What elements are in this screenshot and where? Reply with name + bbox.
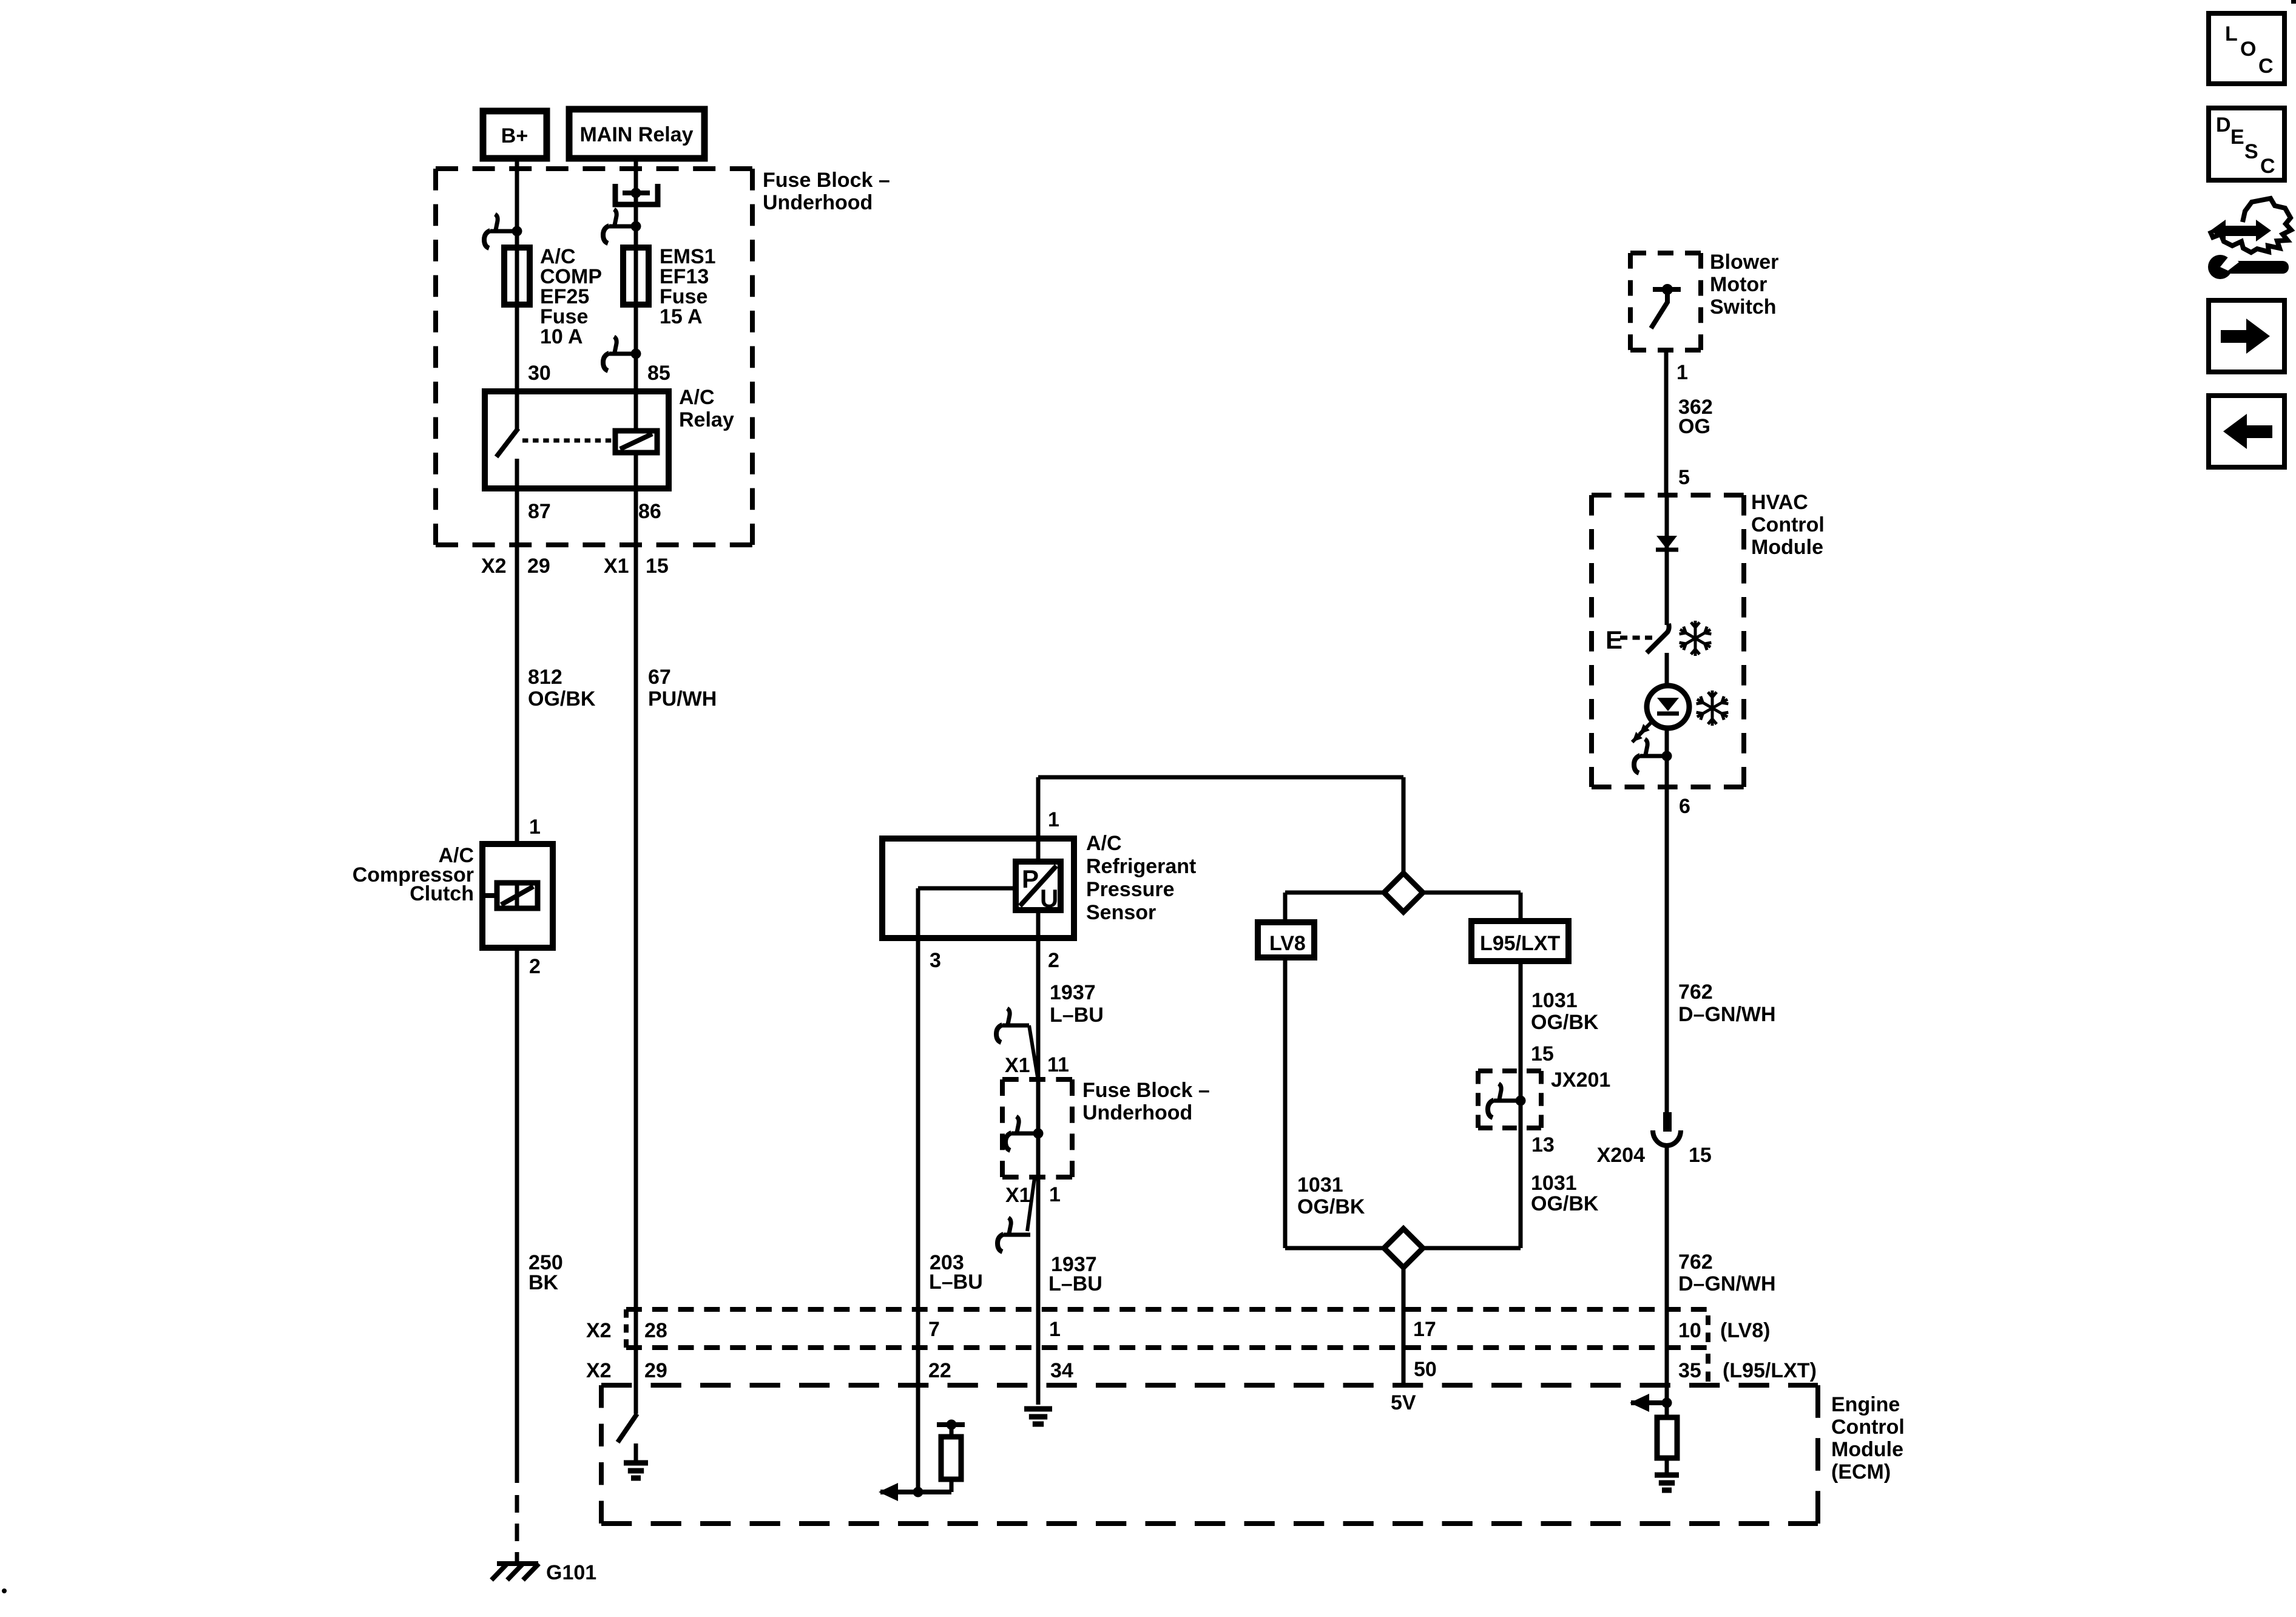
svg-text:O: O <box>2240 38 2256 61</box>
svg-text:OG/BK: OG/BK <box>1531 1192 1599 1215</box>
svg-text:30: 30 <box>528 362 551 385</box>
svg-text:1031: 1031 <box>1297 1173 1343 1197</box>
svg-text:OG/BK: OG/BK <box>1531 1011 1599 1034</box>
svg-text:OG/BK: OG/BK <box>528 687 596 711</box>
svg-text:OG/BK: OG/BK <box>1297 1195 1365 1218</box>
svg-text:L–BU: L–BU <box>1050 1004 1104 1027</box>
svg-text:MAIN Relay: MAIN Relay <box>579 123 693 146</box>
svg-text:17: 17 <box>1413 1318 1436 1341</box>
svg-text:C: C <box>2258 55 2274 78</box>
svg-text:(L95/LXT): (L95/LXT) <box>1723 1359 1817 1382</box>
svg-text:Fuse Block –: Fuse Block – <box>1082 1079 1210 1102</box>
svg-text:L: L <box>2225 22 2238 46</box>
svg-text:86: 86 <box>638 500 661 523</box>
svg-text:X204: X204 <box>1597 1144 1645 1167</box>
svg-text:Sensor: Sensor <box>1086 901 1156 924</box>
svg-text:Underhood: Underhood <box>763 191 873 214</box>
svg-text:Refrigerant: Refrigerant <box>1086 855 1196 878</box>
svg-text:A/C: A/C <box>1086 832 1122 855</box>
svg-text:U: U <box>1040 884 1058 913</box>
svg-text:15: 15 <box>1689 1144 1712 1167</box>
svg-text:50: 50 <box>1414 1358 1437 1381</box>
svg-text:LV8: LV8 <box>1269 932 1306 955</box>
svg-text:762: 762 <box>1678 981 1713 1004</box>
svg-text:BK: BK <box>528 1271 559 1294</box>
svg-text:(ECM): (ECM) <box>1831 1460 1891 1484</box>
svg-text:15: 15 <box>646 555 669 578</box>
svg-text:D: D <box>2216 113 2231 137</box>
svg-text:X1: X1 <box>604 555 629 578</box>
svg-text:67: 67 <box>648 666 671 689</box>
svg-text:Fuse Block –: Fuse Block – <box>763 169 890 192</box>
svg-text:1: 1 <box>1049 1318 1061 1341</box>
svg-text:Blower: Blower <box>1710 251 1778 274</box>
svg-text:HVAC: HVAC <box>1751 491 1808 514</box>
svg-text:10: 10 <box>1678 1319 1701 1342</box>
svg-text:X2: X2 <box>586 1359 612 1382</box>
svg-text:L–BU: L–BU <box>1048 1272 1102 1295</box>
svg-text:1031: 1031 <box>1531 989 1578 1012</box>
svg-text:Module: Module <box>1831 1438 1903 1461</box>
svg-text:E: E <box>2230 126 2244 149</box>
svg-text:13: 13 <box>1531 1133 1555 1156</box>
svg-text:X2: X2 <box>481 555 507 578</box>
svg-text:15 A: 15 A <box>660 305 703 328</box>
svg-text:5V: 5V <box>1391 1391 1416 1414</box>
svg-text:1937: 1937 <box>1050 981 1096 1004</box>
svg-text:JX201: JX201 <box>1551 1068 1610 1092</box>
svg-text:Module: Module <box>1751 536 1823 559</box>
svg-text:2: 2 <box>1048 949 1059 972</box>
svg-text:Control: Control <box>1831 1416 1905 1439</box>
svg-text:85: 85 <box>647 362 670 385</box>
svg-text:L–BU: L–BU <box>929 1271 983 1294</box>
svg-text:P: P <box>1022 865 1039 893</box>
svg-text:3: 3 <box>930 949 941 972</box>
svg-text:Motor: Motor <box>1710 273 1767 296</box>
svg-text:X1: X1 <box>1005 1054 1030 1077</box>
svg-text:5: 5 <box>1678 466 1690 489</box>
svg-text:1: 1 <box>529 815 541 839</box>
svg-text:22: 22 <box>928 1359 951 1382</box>
svg-text:29: 29 <box>644 1359 667 1382</box>
svg-text:35: 35 <box>1678 1359 1701 1382</box>
svg-text:1031: 1031 <box>1531 1172 1577 1195</box>
svg-text:87: 87 <box>528 500 551 523</box>
svg-text:Clutch: Clutch <box>410 882 474 905</box>
svg-text:2: 2 <box>529 955 541 978</box>
svg-text:Relay: Relay <box>679 408 734 431</box>
svg-text:812: 812 <box>528 666 562 689</box>
svg-text:OG: OG <box>1678 415 1710 438</box>
svg-text:Control: Control <box>1751 513 1825 536</box>
svg-text:S: S <box>2244 140 2258 163</box>
svg-text:11: 11 <box>1047 1053 1069 1076</box>
svg-text:D–GN/WH: D–GN/WH <box>1678 1003 1776 1026</box>
svg-text:(LV8): (LV8) <box>1720 1319 1770 1342</box>
svg-text:L95/LXT: L95/LXT <box>1480 932 1560 955</box>
svg-text:D–GN/WH: D–GN/WH <box>1678 1272 1776 1295</box>
svg-text:34: 34 <box>1050 1359 1073 1382</box>
svg-text:15: 15 <box>1531 1042 1554 1065</box>
svg-text:Switch: Switch <box>1710 295 1777 319</box>
svg-text:Pressure: Pressure <box>1086 878 1175 901</box>
svg-text:B+: B+ <box>501 124 528 147</box>
svg-text:X1: X1 <box>1005 1184 1031 1207</box>
svg-text:1: 1 <box>1049 1183 1061 1206</box>
svg-text:7: 7 <box>928 1318 940 1341</box>
svg-text:X2: X2 <box>586 1319 612 1342</box>
svg-text:10 A: 10 A <box>540 325 583 348</box>
svg-text:28: 28 <box>644 1319 667 1342</box>
svg-text:6: 6 <box>1679 795 1690 818</box>
svg-text:C: C <box>2260 155 2275 178</box>
svg-text:1: 1 <box>1048 808 1059 831</box>
svg-text:1: 1 <box>1676 361 1688 384</box>
svg-text:E: E <box>1606 626 1622 654</box>
svg-text:A/C: A/C <box>679 386 715 409</box>
svg-text:Engine: Engine <box>1831 1393 1900 1416</box>
svg-text:G101: G101 <box>546 1561 596 1584</box>
svg-text:762: 762 <box>1678 1251 1713 1274</box>
svg-text:29: 29 <box>527 555 550 578</box>
svg-text:PU/WH: PU/WH <box>648 687 717 711</box>
svg-text:Underhood: Underhood <box>1082 1101 1192 1124</box>
